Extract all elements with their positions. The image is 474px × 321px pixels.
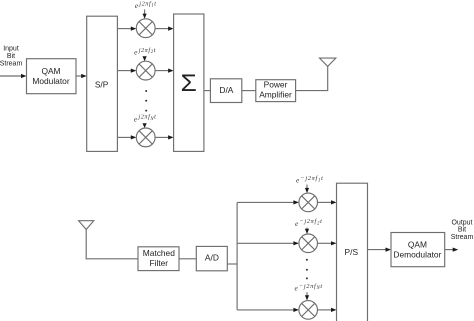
wire mixer RX3 to P/S [318,309,332,311]
wire RX carrier 2 into mixer RX2 [306,228,308,230]
wire S/P to mixer 1 [117,28,131,30]
svg-text:Input: Input [3,46,19,53]
wire mixer 2 to Sigma [155,70,168,72]
block QAM Modulator [27,59,77,94]
block QAM Demodulator [391,233,445,267]
svg-text:Stream: Stream [451,234,474,241]
wire QAM Modulator to S/P [76,75,82,77]
svg-text:Power: Power [264,80,288,90]
wire S/P to mixer 2 [117,70,131,72]
multiplier (mixer) TX2 [136,61,155,80]
wire S/P to mixer 3 [117,136,131,138]
wire splitter to mixer RX1 [237,201,294,203]
block Power Amplifier [256,80,296,102]
svg-text:j2πf2t: j2πf2t [138,47,156,55]
wire splitter to mixer RX3 [237,309,294,311]
wire RX antenna to Matched Filter [86,230,138,259]
multiplier (mixer) RX1 [299,193,318,212]
wire carrier N into mixer 3 [143,123,147,128]
wire RX carrier N into mixer RX3 [306,292,308,296]
svg-text:QAM: QAM [41,66,60,76]
vertical ellipsis dots TX [145,90,147,112]
svg-text:Modulator: Modulator [32,76,69,86]
wire splitter vertical bus [236,202,238,310]
svg-text:Bit: Bit [458,227,466,234]
block S/P (serial to parallel) [87,16,118,151]
svg-text:Amplifier: Amplifier [259,89,292,99]
svg-text:Matched: Matched [143,248,175,258]
wire mixer 3 to Sigma [155,136,168,138]
svg-text:j2πf1t: j2πf1t [138,1,156,9]
wire splitter to mixer RX2 [237,242,294,244]
TX antenna [320,58,336,66]
wire mixer 1 to Sigma [155,28,168,30]
wire Power Amplifier to TX antenna [296,66,328,90]
wire Matched Filter to A/D [179,258,196,260]
block D/A converter [210,79,241,103]
svg-text:Bit: Bit [7,53,15,60]
svg-text:A/D: A/D [205,253,219,263]
multiplier (mixer) TX3 [136,128,155,147]
node Output Bit Stream label [451,220,474,241]
svg-text:Output: Output [451,220,472,227]
svg-text:P/S: P/S [345,247,359,257]
block P/S (parallel to serial) [337,183,368,321]
wire QAM Demodulator output [445,249,453,251]
RX antenna [79,221,94,230]
multiplier (mixer) RX3 [299,301,318,320]
svg-text:D/A: D/A [219,85,233,95]
block Matched Filter [138,247,179,271]
wire A/D to splitter node [227,263,237,265]
svg-text:Filter: Filter [149,258,168,268]
wire D/A to Power Amplifier [242,90,256,92]
wire input to QAM Modulator [0,75,22,77]
wire mixer RX2 to P/S [318,242,332,244]
wire carrier 1 into mixer 1 [144,10,146,15]
svg-text:Demodulator: Demodulator [393,250,441,260]
svg-text:QAM: QAM [408,239,427,249]
wire P/S to QAM Demodulator [368,249,386,251]
svg-text:j2πfNt: j2πfNt [137,114,156,122]
block A/D converter [196,246,227,270]
multiplier (mixer) RX2 [299,234,318,253]
multiplier (mixer) TX1 [136,19,155,38]
wire Sigma to D/A [204,90,211,92]
svg-text:S/P: S/P [95,79,109,89]
svg-text:Σ: Σ [181,70,197,97]
node Input Bit Stream label [0,46,22,68]
wire carrier 2 into mixer 2 [143,56,147,61]
vertical ellipsis dots RX [306,259,308,280]
wire RX carrier 1 into mixer RX1 [306,185,308,189]
wire mixer RX1 to P/S [318,201,332,203]
svg-text:Stream: Stream [0,61,22,68]
block Sigma summer [174,14,204,151]
